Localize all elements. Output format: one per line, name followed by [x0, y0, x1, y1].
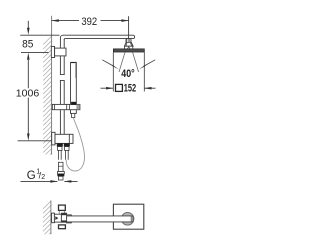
arrow right of 392: [121, 19, 128, 22]
hose: [66, 118, 84, 171]
union body: [54, 214, 61, 222]
spray cone line left: [119, 52, 125, 72]
lower box with thread mark: [125, 46, 133, 49]
svg-text:40°: 40°: [121, 68, 134, 80]
label G 1/2: [27, 169, 45, 183]
rail upper segment: [60, 39, 64, 75]
hand shower wand: [71, 63, 77, 114]
wand nipple: [72, 113, 75, 117]
wall hatch lower detail: [43, 201, 51, 241]
arrow left of 392: [52, 19, 59, 22]
holder side knob gray: [76, 105, 79, 110]
G 1/2 inlet stub: [58, 162, 63, 171]
svg-text:152: 152: [124, 82, 136, 94]
arrow left 152: [106, 87, 113, 90]
leader arrow left 40: [102, 60, 114, 67]
arrow down at top ext (85): [27, 28, 30, 35]
spray cone line right: [133, 52, 139, 72]
union neck under knob: [59, 211, 64, 215]
wall face line lower: [50, 200, 52, 234]
svg-text:85: 85: [22, 39, 33, 51]
bottom wall bracket / diverter: [52, 132, 73, 145]
svg-text:2: 2: [41, 174, 45, 181]
left outlet stub: [57, 143, 63, 146]
rail lower segment: [60, 80, 64, 134]
extension line right of 392: [128, 16, 130, 39]
union collar circle: [121, 213, 134, 226]
shower arm with elbow: [60, 35, 134, 39]
extension lines of 152: [113, 52, 144, 91]
dimension 1006 line: [27, 60, 29, 134]
supply pipe to escutcheon: [67, 216, 133, 222]
extension line between 85 and 1006: [21, 51, 49, 53]
ball joint under arm: [126, 39, 131, 43]
wall face line upper (also left extension of 392): [51, 16, 53, 155]
top wall bracket: [51, 46, 66, 57]
extension line bottom of 1006: [18, 140, 52, 142]
svg-text:1006: 1006: [16, 88, 40, 99]
union top knob: [59, 205, 66, 210]
arrow up 1006: [27, 53, 30, 60]
svg-text:G: G: [27, 170, 36, 182]
G 1/2 dimension line: [21, 180, 78, 182]
union sleeve: [67, 215, 72, 223]
label square 152: [116, 84, 123, 91]
arrow down 1006: [27, 134, 30, 141]
extension line top of 85: [20, 34, 59, 36]
svg-text:392: 392: [81, 16, 97, 28]
arrow left G12: [50, 180, 57, 183]
union hex nut: [61, 213, 66, 222]
arrow right 152: [144, 87, 151, 90]
union flange at wall: [52, 213, 55, 223]
right outlet stub: [64, 143, 70, 146]
union bottom knob: [59, 225, 66, 229]
leader arrow right 40: [144, 60, 156, 67]
dimension 152 line: [101, 87, 156, 89]
hand shower holder bar: [52, 104, 80, 109]
dimension 392 line: [52, 20, 129, 22]
85 outside arrow stem: [27, 21, 29, 28]
head shower plate: [113, 49, 144, 52]
nut below ball (flared): [124, 42, 133, 46]
arrow right G12: [64, 180, 71, 183]
escutcheon square plate: [113, 204, 143, 229]
holder clip dark: [71, 102, 76, 105]
